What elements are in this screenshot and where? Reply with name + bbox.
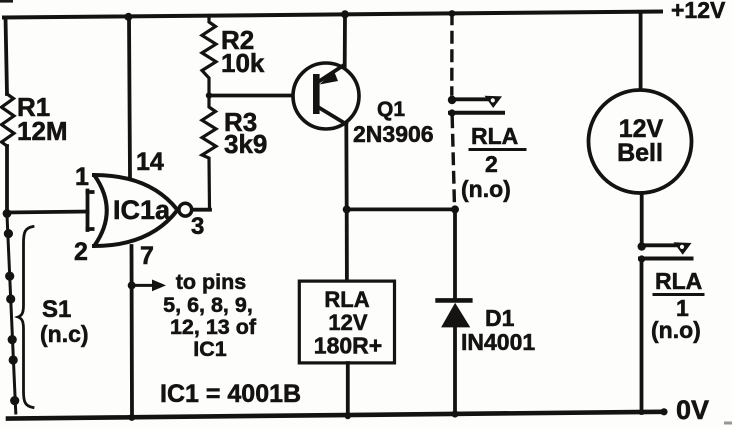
node: rail / RLA2 dashed junction xyxy=(449,10,456,17)
node: rail / pin-14 junction xyxy=(124,13,132,21)
fraction bar for RLA/2 xyxy=(470,148,525,151)
wire: R1 to input node xyxy=(5,146,9,213)
resistor R2 (with stub from +12V rail) xyxy=(202,16,216,96)
node: collector / relay junction xyxy=(343,205,351,213)
bell (12V Bell) xyxy=(589,90,692,193)
+12V supply rail xyxy=(4,12,661,18)
resistor R3 xyxy=(202,96,216,210)
wire: +12V rail to bell xyxy=(639,12,643,90)
svg-text:RLA: RLA xyxy=(471,123,518,149)
svg-text:(n.o): (n.o) xyxy=(651,317,701,343)
node: junction pin7 / 0V rail xyxy=(128,414,135,421)
svg-text:S1: S1 xyxy=(42,296,71,323)
svg-text:0V: 0V xyxy=(676,395,709,425)
wire: RLA/1 to 0V rail xyxy=(640,262,644,413)
switch S1 (n.c) contact chain xyxy=(4,215,20,413)
scan artifacts xyxy=(0,0,13,3)
svg-text:1: 1 xyxy=(75,163,89,191)
svg-text:Q1: Q1 xyxy=(377,98,405,121)
svg-text:Bell: Bell xyxy=(617,139,663,167)
relay contact RLA/1 (n.o) xyxy=(638,242,692,262)
wire: bell to RLA/1 contact xyxy=(640,193,644,243)
svg-text:2: 2 xyxy=(74,238,88,266)
NOR gate IC1a xyxy=(94,175,192,246)
node: pin 7 arrow junction xyxy=(128,281,136,289)
node: relay / 0V rail junction xyxy=(345,413,351,419)
svg-text:7: 7 xyxy=(140,242,154,270)
node: diode / 0V rail junction xyxy=(451,410,458,417)
fraction bar for RLA/1 xyxy=(654,293,703,296)
svg-text:180R+: 180R+ xyxy=(314,333,382,359)
transistor Q1 (PNP 2N3906) xyxy=(293,63,359,129)
label D1 IN4001 xyxy=(461,305,535,355)
svg-text:14: 14 xyxy=(136,148,164,176)
node: R2 / R3 / base junction xyxy=(206,92,212,98)
wire: input node to gate inputs (pins 1 and 2 tied) xyxy=(7,191,100,231)
label Q1 2N3906 xyxy=(353,98,434,147)
relay coil RLA 12V 180R+ xyxy=(299,281,394,363)
0V rail terminal dot xyxy=(660,408,667,415)
svg-text:12V: 12V xyxy=(328,310,367,335)
svg-text:5, 6, 8, 9,: 5, 6, 8, 9, xyxy=(163,293,253,317)
wire: dashed link RLA/2 contact to diode node xyxy=(452,117,454,207)
label R2 10k xyxy=(221,25,265,78)
svg-text:RLA: RLA xyxy=(324,287,369,312)
svg-text:2: 2 xyxy=(485,151,498,177)
wire: left branch from +12V rail down to R1 xyxy=(6,18,8,95)
wire: Q1 emitter to +12V rail xyxy=(343,14,347,67)
svg-text:IC1 = 4001B: IC1 = 4001B xyxy=(160,380,301,408)
brace grouping S1 contacts xyxy=(18,227,33,408)
svg-text:(n.o): (n.o) xyxy=(461,176,511,202)
svg-text:3k9: 3k9 xyxy=(224,129,267,159)
svg-text:to pins: to pins xyxy=(176,270,247,294)
relay contact RLA/2 (n.o) xyxy=(448,96,503,117)
svg-text:RLA: RLA xyxy=(655,268,702,294)
label RLA 12V 180R+ xyxy=(314,287,382,359)
label 12V Bell xyxy=(617,115,663,167)
svg-text:3: 3 xyxy=(191,213,204,240)
svg-text:+12V: +12V xyxy=(671,0,726,23)
wire: collector node to diode node xyxy=(347,207,455,211)
wire: Q1 collector to collector node xyxy=(344,123,348,209)
label S1 (n.c) xyxy=(40,296,89,347)
svg-text:IN4001: IN4001 xyxy=(461,329,535,355)
svg-text:D1: D1 xyxy=(485,305,515,331)
svg-text:12M: 12M xyxy=(17,116,68,146)
label R1 12M xyxy=(17,92,68,146)
wire: pin 14 from +12V rail to gate top xyxy=(129,17,130,179)
wire: diode node to D1 cathode xyxy=(453,209,457,300)
svg-text:IC1a: IC1a xyxy=(113,195,171,225)
svg-text:IC1: IC1 xyxy=(193,337,227,361)
wire: pin 7 from gate bottom to 0V rail xyxy=(130,246,134,417)
node: R1 / S1 / gate-input junction xyxy=(3,209,12,218)
label RLA 2 (n.o) xyxy=(461,123,518,202)
wire: collector node to relay coil xyxy=(345,209,349,281)
wire: D1 anode to 0V rail xyxy=(453,327,457,414)
wire: gate output to R3 bottom xyxy=(192,208,210,212)
wire: dashed link +12V rail to RLA/2 contact xyxy=(450,14,454,94)
wire: relay coil to 0V rail xyxy=(346,363,350,416)
svg-text:12, 13 of: 12, 13 of xyxy=(170,315,257,339)
label: to pins 5,6,8,9,12,13 of IC1 xyxy=(163,270,257,361)
wire: base from R2/R3 junction to Q1 xyxy=(209,94,314,98)
resistor R1 xyxy=(2,94,15,146)
label R3 3k9 xyxy=(224,107,267,159)
node: diode-top junction xyxy=(451,205,459,213)
svg-text:10k: 10k xyxy=(221,48,265,78)
diode D1 (cathode bar up) xyxy=(438,300,471,327)
svg-text:2N3906: 2N3906 xyxy=(353,121,434,147)
0V supply rail xyxy=(8,412,661,419)
svg-text:(n.c): (n.c) xyxy=(40,321,89,347)
node: rail / emitter junction xyxy=(341,10,349,18)
arrow: pin 7 to other IC1 pins xyxy=(132,280,166,292)
label RLA 1 (n.o) xyxy=(651,268,702,343)
